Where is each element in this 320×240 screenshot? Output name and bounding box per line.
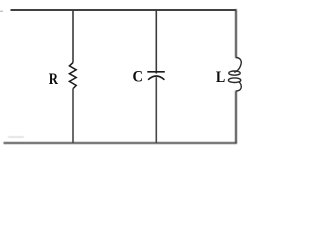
inductor L top hook: [234, 58, 241, 73]
capacitor C bottom plate (arc): [148, 76, 164, 80]
wire R branch top: [72, 9, 74, 62]
wire L branch top: [235, 9, 237, 58]
wire R branch bottom: [72, 89, 74, 143]
wire C branch top: [155, 9, 157, 73]
svg-text:C: C: [133, 68, 144, 86]
inductor L loop 1: [229, 71, 240, 75]
inductor L bottom hook: [236, 82, 241, 91]
inductor L loop 2: [228, 78, 240, 83]
top rail wire: [11, 9, 237, 11]
capacitor C top plate: [147, 71, 165, 73]
resistor R: [69, 63, 76, 89]
bottom rail wire: [4, 142, 237, 144]
bottom rail faint ghost line: [8, 136, 24, 138]
top rail faint left tick: [0, 10, 3, 12]
svg-text:R: R: [49, 71, 59, 89]
wire C branch bottom: [155, 77, 157, 143]
wire L branch bottom: [235, 91, 237, 143]
svg-text:L: L: [216, 69, 225, 86]
